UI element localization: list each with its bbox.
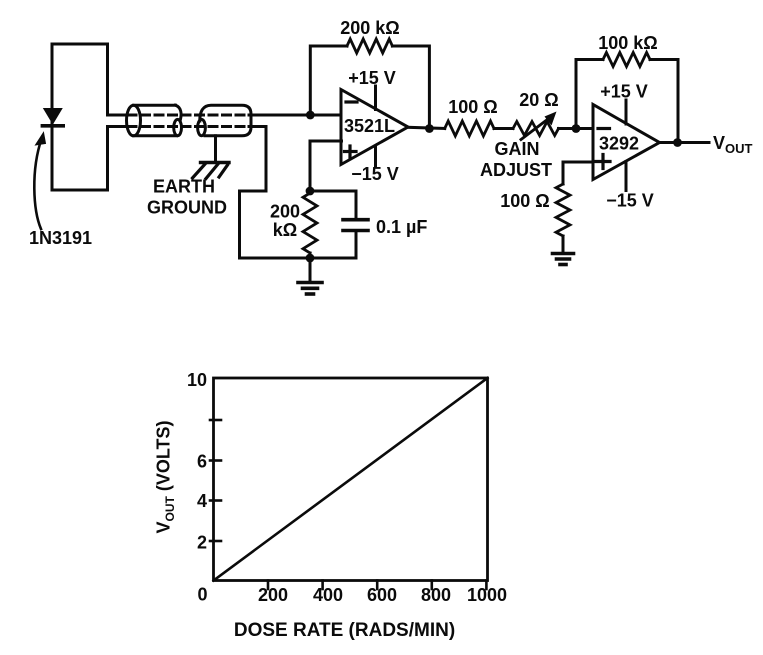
- graph y-axis labels: [187, 370, 208, 605]
- svg-text:0: 0: [197, 585, 207, 605]
- svg-text:1000: 1000: [467, 585, 507, 605]
- label 200 kOhm (R2): [270, 202, 300, 241]
- U1 +15V supply pin: [374, 86, 377, 110]
- label EARTH GROUND: [147, 177, 227, 218]
- ground symbol (below R2): [298, 258, 322, 294]
- svg-text:200 kΩ: 200 kΩ: [340, 18, 399, 38]
- svg-text:+15 V: +15 V: [348, 68, 396, 88]
- U2 plus input symbol: [596, 155, 610, 169]
- U2 +15V supply pin: [625, 100, 628, 124]
- graph y-axis ticks: [210, 420, 221, 541]
- svg-text:VOUT (VOLTS): VOUT (VOLTS): [154, 420, 178, 533]
- label GAIN ADJUST: [480, 139, 552, 180]
- capacitor C1 0.1 uF branch: [310, 191, 368, 258]
- node C (bottom of R2): [306, 254, 315, 263]
- wire potentiometer to U2 inverting input: [559, 127, 594, 130]
- label 1N3191: [29, 228, 92, 248]
- svg-text:EARTH: EARTH: [153, 177, 215, 197]
- label 100 kOhm (R4): [598, 33, 657, 53]
- resistor R3 100 Ohm: [445, 121, 494, 136]
- op-amp U2 3292: [593, 105, 660, 180]
- detector box: [52, 44, 108, 190]
- wire R3 to potentiometer: [494, 127, 513, 130]
- wire U2 output: [660, 141, 709, 144]
- graph x-axis labels: [258, 585, 507, 605]
- label 200 kOhm (R1): [340, 18, 399, 38]
- svg-text:600: 600: [367, 585, 397, 605]
- svg-text:200: 200: [270, 202, 300, 222]
- op-amp U1 3521L: [341, 90, 408, 165]
- svg-text:10: 10: [187, 370, 207, 390]
- wire U1 feedback loop: [310, 46, 429, 129]
- resistor R4 100 kOhm feedback: [603, 53, 650, 67]
- label +15 V (U2): [600, 82, 648, 102]
- earth ground: [193, 136, 230, 179]
- svg-text:6: 6: [197, 452, 207, 472]
- svg-text:800: 800: [421, 585, 451, 605]
- label 0.1 uF: [376, 217, 427, 237]
- svg-text:400: 400: [313, 585, 343, 605]
- resistor R1 200 kOhm feedback: [347, 39, 392, 53]
- ground symbol (below R5): [553, 254, 574, 265]
- graph axes box: [214, 378, 488, 581]
- U2 minus input symbol: [598, 127, 610, 130]
- wire bottom conductor (box to cable, dashed inside shield): [108, 125, 267, 128]
- svg-text:200: 200: [258, 585, 288, 605]
- wire U1 non-inverting input branch: [310, 141, 342, 191]
- node F (U2 output junction): [673, 138, 682, 147]
- svg-text:VOUT: VOUT: [713, 133, 753, 156]
- label 3292: [599, 134, 639, 154]
- label 20 Ohm: [519, 90, 558, 110]
- svg-text:2: 2: [197, 533, 207, 553]
- node A input junction: [306, 111, 315, 120]
- svg-text:+15 V: +15 V: [600, 82, 648, 102]
- wire top conductor (box to cable, dashed inside shield, then to U1): [108, 114, 342, 117]
- wire U1 output: [407, 127, 445, 128]
- svg-text:100 Ω: 100 Ω: [448, 97, 497, 117]
- svg-text:1N3191: 1N3191: [29, 228, 92, 248]
- svg-text:3292: 3292: [599, 134, 639, 154]
- label 100 Ohm (R5): [500, 191, 549, 211]
- graph x-axis ticks: [268, 581, 486, 590]
- potentiometer R6 20 Ohm gain adjust: [513, 112, 559, 140]
- svg-text:kΩ: kΩ: [273, 220, 297, 240]
- node D (U1 output junction): [425, 124, 434, 133]
- label 100 Ohm (R3): [448, 97, 497, 117]
- label -15 V (U2): [606, 191, 654, 211]
- photodiode D1 1N3191: [42, 109, 63, 126]
- graph response line: [214, 378, 488, 581]
- label -15 V (U1): [351, 164, 399, 184]
- U1 -15V supply pin: [374, 147, 377, 166]
- U2 -15V supply pin: [625, 162, 628, 191]
- svg-text:4: 4: [197, 491, 207, 511]
- svg-text:100 kΩ: 100 kΩ: [598, 33, 657, 53]
- wire bottom node to capacitor bottom: [310, 257, 356, 260]
- wire U2 feedback loop: [576, 60, 678, 143]
- label +15 V (U1): [348, 68, 396, 88]
- svg-text:0.1 µF: 0.1 µF: [376, 217, 427, 237]
- svg-text:−15 V: −15 V: [606, 191, 654, 211]
- resistor R5 100 Ohm to ground: [556, 184, 570, 253]
- label 3521L: [344, 116, 395, 136]
- svg-text:3521L: 3521L: [344, 116, 395, 136]
- node B (top of R2): [306, 187, 315, 196]
- svg-text:DOSE RATE (RADS/MIN): DOSE RATE (RADS/MIN): [234, 620, 455, 641]
- label VOUT: [713, 133, 753, 156]
- svg-text:20 Ω: 20 Ω: [519, 90, 558, 110]
- svg-text:−15 V: −15 V: [351, 164, 399, 184]
- wire U2 non-inverting input branch: [563, 162, 593, 184]
- svg-text:ADJUST: ADJUST: [480, 160, 552, 180]
- U1 minus input symbol: [346, 100, 357, 103]
- svg-text:GAIN: GAIN: [495, 139, 540, 159]
- graph x-axis title DOSE RATE (RADS/MIN): [234, 620, 455, 641]
- svg-text:GROUND: GROUND: [147, 198, 227, 218]
- shielded cable section 1: [127, 105, 182, 136]
- shielded cable section 2: [198, 105, 251, 136]
- resistor R2 200 kOhm to ground: [303, 191, 317, 258]
- graph y-axis title VOUT (VOLTS): [154, 420, 178, 533]
- wire shield return path (bottom conductor to ground node): [240, 127, 311, 259]
- leader arrow to 1N3191: [34, 133, 45, 230]
- U1 plus input symbol: [345, 146, 357, 157]
- node E (U2 input junction): [572, 124, 581, 133]
- svg-text:100 Ω: 100 Ω: [500, 191, 549, 211]
